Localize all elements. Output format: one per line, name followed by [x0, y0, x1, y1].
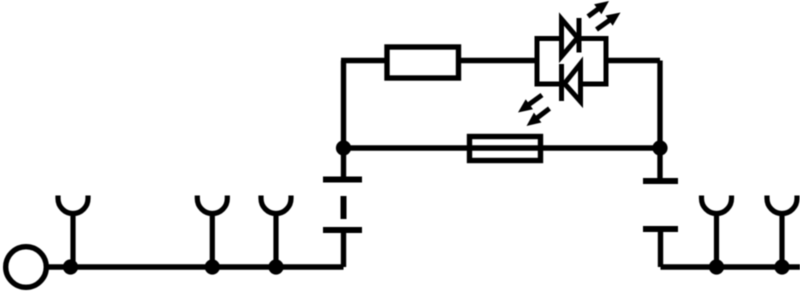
- disconnect left: upper contact bar: [323, 177, 362, 183]
- wire: top rail left segment: [341, 58, 387, 63]
- wire: node R to right disconnect: [657, 148, 662, 181]
- resistor: [387, 47, 459, 78]
- LED D2 (bottom, anode right, pointing left): [562, 64, 581, 102]
- node R junction dot: [652, 140, 667, 155]
- LED D1 (top, anode left, pointing right): [562, 18, 580, 57]
- node L junction dot: [336, 140, 351, 155]
- wire: riser from bottom-left rail to left disconnect: [341, 230, 346, 267]
- disconnect left: blade: [341, 196, 347, 219]
- wire: bottom-right rail: [661, 264, 800, 269]
- clamp contact 5: [767, 196, 797, 268]
- wire: middle rail (through fuse): [344, 145, 661, 150]
- disconnect left: lower contact bar: [323, 227, 362, 233]
- wire: left disconnect to node L: [341, 148, 346, 180]
- terminal circle (left wire entry): [6, 247, 47, 288]
- wire: right disconnect down to bottom-right rail: [658, 229, 663, 267]
- wire: left riser of top loop: [341, 61, 346, 149]
- LED indicator box: [537, 39, 606, 85]
- junction dot 1: [63, 259, 78, 274]
- junction dot 4: [709, 259, 724, 274]
- clamp contact 4: [702, 196, 732, 268]
- junction dot 3: [268, 259, 283, 274]
- wire: bottom-left rail: [46, 264, 344, 269]
- light emission arrows of D2 (bottom left): [518, 95, 550, 126]
- wire: right riser of top loop: [657, 61, 662, 149]
- disconnect right: lower contact bar: [643, 226, 678, 232]
- clamp contact 1: [58, 196, 88, 268]
- disconnect right: upper contact bar: [643, 178, 678, 184]
- clamp contact 2: [197, 196, 227, 268]
- wire: top rail middle segment: [459, 58, 538, 63]
- fuse: [470, 137, 541, 161]
- light emission arrows of D1 (top right): [588, 1, 621, 30]
- clamp contact 3: [261, 196, 291, 268]
- junction dot 5: [774, 259, 789, 274]
- wire: top rail right segment: [606, 58, 660, 63]
- junction dot 2: [205, 259, 220, 274]
